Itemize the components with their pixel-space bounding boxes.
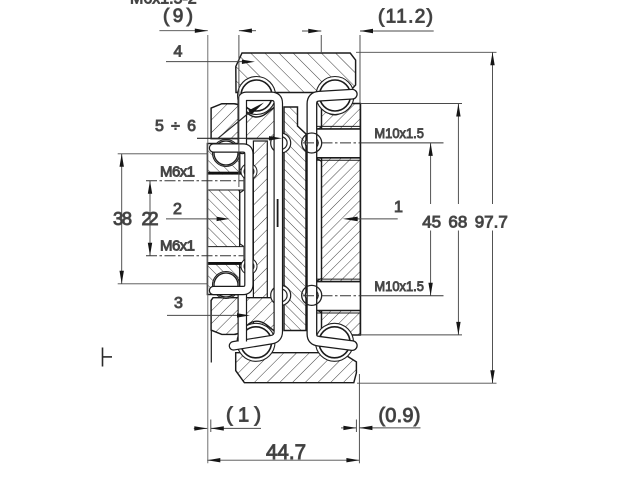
- raceway ring upper-left of web: [271, 133, 291, 153]
- cage strip 6 left raceway groove path: [234, 96, 279, 345]
- raceway ring outer upper-right: [302, 133, 322, 153]
- raceway ring inner upper-right: [305, 137, 318, 150]
- svg-text:44.7: 44.7: [266, 441, 306, 464]
- M10x1.5 lower centerline: [303, 295, 444, 297]
- svg-text:(1): (1): [226, 405, 261, 427]
- leader item 2: [166, 201, 230, 221]
- leader item 4: [166, 44, 255, 65]
- leader item 1: [343, 199, 403, 221]
- ball 5 top-right: [320, 80, 351, 111]
- svg-text:22: 22: [142, 208, 159, 229]
- M6x1 upper tapped hole: [207, 172, 243, 190]
- dimension 45: [428, 143, 432, 296]
- top cap plate 4: [236, 53, 356, 93]
- ball 5 mid-left lower: [214, 273, 238, 297]
- extension line left x=207.8: [207, 35, 209, 463]
- inner rail 2 upper M6 pad: [240, 169, 244, 193]
- svg-text:M6x1: M6x1: [160, 164, 195, 181]
- ball 5 top-left: [241, 80, 272, 111]
- svg-text:(0.9): (0.9): [378, 405, 420, 427]
- leader item 5+6: [155, 103, 282, 141]
- svg-text:4: 4: [174, 44, 183, 61]
- svg-text:(9): (9): [163, 6, 193, 27]
- extension line right x=360: [359, 35, 361, 103]
- extension line x=359.4 bottom: [358, 374, 360, 463]
- intermediate rail upper-left arm: [211, 104, 278, 139]
- extension line x=321.25: [320, 35, 322, 54]
- dimension (9): [159, 6, 256, 33]
- M10x1.5 lower tapped hole: [316, 279, 360, 313]
- dimension 22: [142, 181, 159, 256]
- outer rail 1 lower M10 pad: [316, 278, 321, 312]
- dimension (1): [194, 405, 261, 433]
- ball pocket top-right: [316, 77, 354, 115]
- dimension 97.7: [356, 52, 497, 383]
- ball 5 bottom-right: [319, 327, 350, 358]
- cropped text fragments at top edge: [130, 0, 197, 8]
- ball pocket bottom-left: [237, 323, 275, 361]
- leader item 3: [167, 295, 250, 318]
- ball pocket bottom-right: [316, 323, 354, 361]
- cage strip 6 inner-left path: [214, 148, 249, 291]
- ball 5 bottom-left: [241, 327, 272, 358]
- cage drop channel lower-left: [238, 289, 248, 341]
- dimension 68: [360, 104, 462, 335]
- break tick bottom-left: [103, 348, 113, 367]
- bottom cap plate 3: [236, 353, 357, 383]
- M10x1.5 upper tapped hole: [316, 126, 360, 160]
- svg-text:2: 2: [173, 201, 182, 218]
- svg-text:38: 38: [113, 208, 132, 229]
- dimension 38: [113, 154, 208, 284]
- intermediate rail left leg: [253, 141, 267, 331]
- svg-text:M6x1: M6x1: [160, 238, 195, 255]
- bottom cap 3 left skirt edge: [210, 331, 212, 363]
- raceway ring outer lower-right: [302, 285, 322, 305]
- small raceway ring upper-left: [241, 164, 257, 180]
- svg-text:68: 68: [448, 213, 467, 232]
- svg-text:(11.2): (11.2): [378, 7, 433, 28]
- inner rail 2 lower M6 pad: [240, 244, 244, 268]
- M10x1.5 upper centerline: [303, 142, 444, 144]
- M6x1 upper centerline: [146, 180, 243, 182]
- cage strip edge line in left groove: [277, 199, 279, 227]
- extension line x=238.9: [238, 35, 240, 187]
- raceway ring lower-left of web: [271, 285, 291, 305]
- small raceway ring lower-left: [241, 258, 257, 274]
- dimension 44.7: [207, 441, 359, 464]
- dimension (0.9): [341, 405, 421, 432]
- svg-text:3: 3: [174, 295, 183, 312]
- svg-text:M10x1.5: M10x1.5: [374, 126, 424, 141]
- ball pocket top-left: [238, 77, 276, 115]
- svg-text:1: 1: [394, 199, 403, 216]
- M6x1 lower centerline: [146, 255, 243, 257]
- outer rail 1 right face re-stroke: [359, 104, 361, 336]
- intermediate rail center web: [284, 107, 306, 331]
- ball pocket mid-left upper: [213, 140, 240, 167]
- cage strip 6 right raceway groove path: [312, 94, 352, 345]
- svg-text:97.7: 97.7: [475, 213, 508, 232]
- intermediate rail lower-left arm: [211, 298, 278, 335]
- ball 5 mid-left upper: [214, 141, 238, 165]
- outer rail 1 upper M10 pad: [316, 127, 321, 161]
- svg-text:M10x1.5: M10x1.5: [374, 279, 424, 294]
- dimension (11.2): [302, 7, 434, 34]
- ball pocket mid-left lower: [213, 272, 240, 299]
- svg-text:5÷6: 5÷6: [155, 118, 196, 135]
- inner rail 2 left wall: [207, 144, 239, 295]
- svg-text:45: 45: [422, 213, 441, 232]
- raceway ring inner lower-right: [305, 289, 318, 302]
- outer rail 1 right wall: [322, 104, 361, 336]
- M6x1 lower tapped hole: [207, 247, 243, 265]
